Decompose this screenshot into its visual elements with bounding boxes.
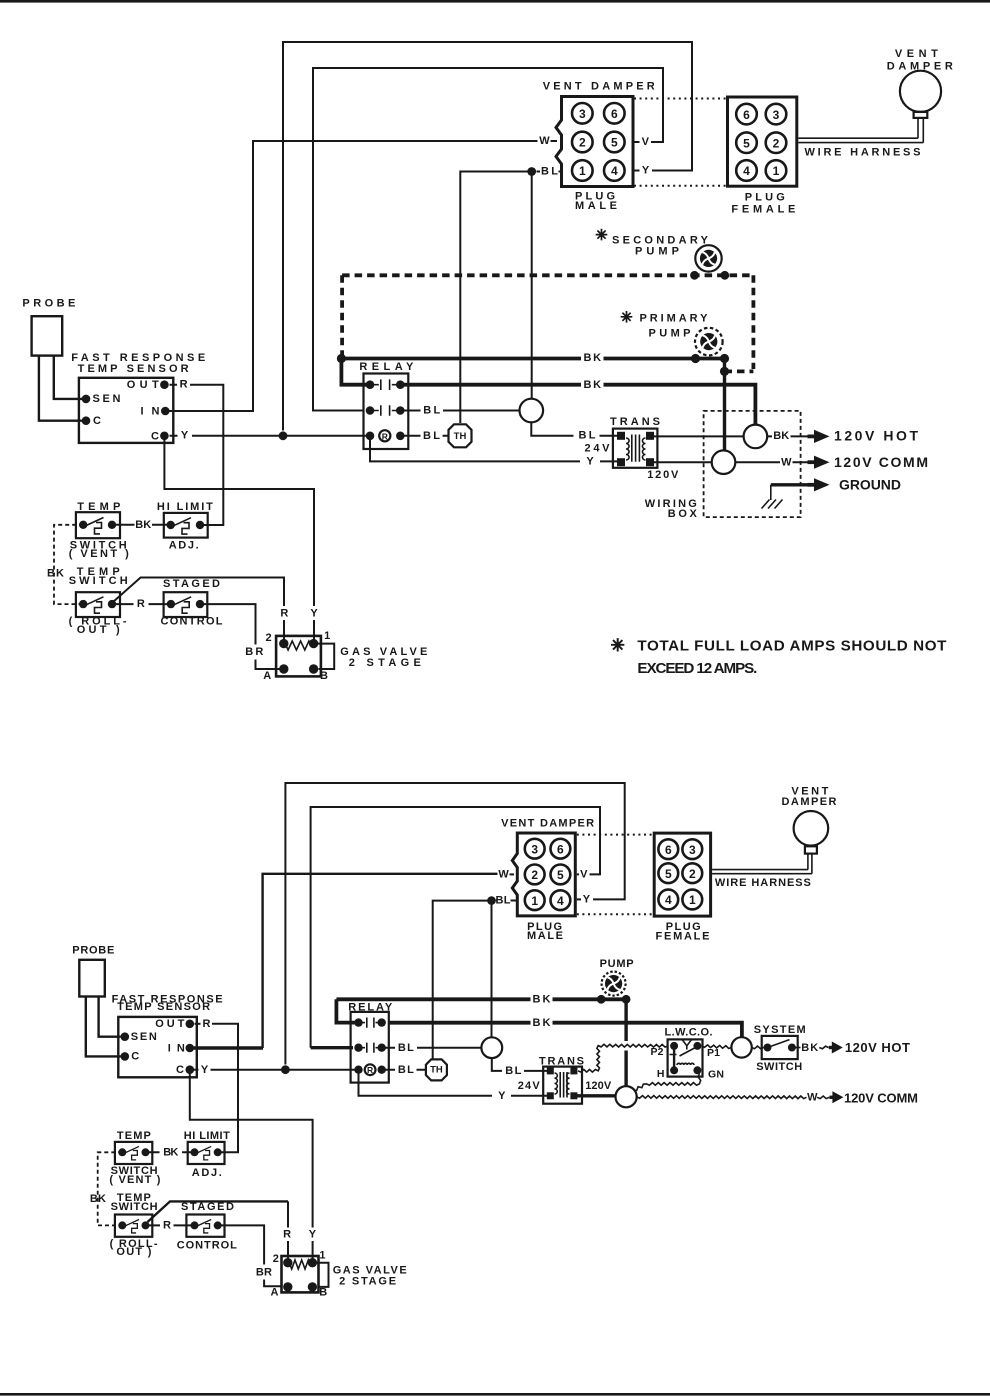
svg-text:R: R [367, 1065, 373, 1075]
svg-text:V: V [642, 136, 650, 148]
wire trans 120V to splice W thick [574, 1094, 616, 1097]
node BL junction at plug male [527, 167, 536, 176]
node primary pump left [691, 354, 700, 363]
wire relay R-right BL to TH [384, 1069, 427, 1071]
L.W.C.O. low water cut-off [651, 1027, 725, 1081]
thermostat TH [449, 424, 472, 447]
svg-text:BL: BL [423, 430, 440, 442]
svg-text:R: R [180, 379, 188, 391]
svg-text:4: 4 [611, 164, 618, 178]
svg-text:A: A [263, 670, 271, 682]
vent damper ball bottom [782, 785, 837, 853]
svg-text:B: B [319, 1286, 327, 1298]
svg-text:PROBE: PROBE [22, 298, 75, 310]
svg-text:2: 2 [579, 136, 586, 150]
svg-text:TH: TH [430, 1065, 443, 1076]
wire BL down branch to splice [491, 901, 493, 1038]
wire W from plug male pin W down to sensor IN [263, 874, 498, 1048]
svg-text:BR: BR [256, 1266, 272, 1278]
svg-text:2 STAGE: 2 STAGE [349, 657, 421, 669]
svg-text:PUMP: PUMP [600, 958, 634, 970]
wire relay H2 right BL to wire-nut [402, 410, 520, 412]
svg-text:WIRE HARNESS: WIRE HARNESS [805, 146, 921, 158]
field wiring LWCO P1 to BK splice [702, 1045, 732, 1049]
dotted links male to female [577, 834, 653, 836]
svg-text:RELAY: RELAY [359, 361, 414, 373]
wire relay H2 right BL to splice [384, 1047, 482, 1049]
svg-text:BL: BL [505, 1065, 521, 1077]
svg-text:SECONDARY: SECONDARY [612, 234, 709, 246]
wire relay R-left down to trans Y [359, 1070, 552, 1096]
svg-text:Y: Y [642, 165, 650, 177]
svg-text:L.W.C.O.: L.W.C.O. [665, 1027, 713, 1039]
relay K1 [359, 361, 414, 449]
wire from wire-nut down to trans 24V BL [531, 422, 622, 436]
svg-text:P1: P1 [707, 1047, 720, 1059]
svg-text:BK: BK [584, 352, 602, 364]
svg-text:R: R [382, 431, 388, 441]
gas valve V1 [245, 607, 427, 682]
svg-text:W: W [807, 1092, 818, 1104]
svg-text:PUMP: PUMP [635, 246, 679, 258]
splice circle BL [481, 1037, 502, 1058]
svg-text:BK: BK [801, 1042, 818, 1054]
node Y junction [279, 431, 288, 440]
node dots on dashed line at secondary pump [690, 271, 699, 280]
wire Y from plug male pin Y up-over-down to Y node [283, 42, 692, 431]
wire relay R-left down to trans 24V Y [370, 436, 622, 462]
wire roll-out diagonal to gas valve pin 2 (R) [113, 578, 284, 642]
svg-text:3: 3 [579, 107, 586, 121]
hi limit switch S2 [157, 501, 213, 551]
svg-text:4: 4 [743, 164, 750, 178]
svg-text:BL: BL [496, 895, 511, 907]
splice W circle [712, 450, 736, 474]
wiring box dashed [704, 411, 801, 517]
svg-text:OUT ): OUT ) [116, 1246, 151, 1258]
svg-text:120V: 120V [585, 1080, 612, 1092]
svg-text:Y: Y [583, 894, 591, 906]
svg-text:PLUG: PLUG [745, 192, 785, 204]
svg-text:3: 3 [689, 843, 696, 857]
wire pump neutral down to wire-nut W [723, 359, 726, 451]
wire W splice to 120V COMM arrow [735, 461, 808, 463]
node BK1 junction with dashed box [337, 354, 346, 363]
svg-text:MALE: MALE [527, 930, 563, 942]
wire harness double line [798, 118, 923, 143]
vent damper ball [887, 48, 953, 118]
wire pump neutral down to splice W (break at field wiring crossing) [624, 999, 627, 1086]
wire W from plug male pin W to sensor IN [166, 141, 538, 411]
hi limit bottom [184, 1130, 230, 1179]
wire BK1 thick from junction to primary pump [341, 357, 726, 361]
svg-text:P2: P2 [651, 1046, 664, 1058]
svg-text:BK: BK [533, 1017, 551, 1029]
svg-text:24V: 24V [518, 1080, 541, 1092]
svg-text:BK: BK [90, 1193, 106, 1205]
svg-text:SEN: SEN [93, 393, 121, 405]
svg-text:BK: BK [533, 994, 551, 1006]
svg-text:BOX: BOX [668, 508, 698, 520]
svg-text:VENT: VENT [895, 48, 938, 60]
splice BK circle [744, 425, 768, 449]
svg-text:120V HOT: 120V HOT [845, 1040, 910, 1055]
field wiring W splice to GN [634, 1074, 701, 1091]
svg-text:W: W [539, 135, 550, 147]
thermostat TH [426, 1059, 447, 1080]
wire relay R-right BL to TH [402, 435, 449, 437]
svg-text:C: C [176, 1064, 184, 1076]
wire thick feed down to relay H1 left [341, 359, 368, 385]
plug female J1 bottom [654, 833, 710, 943]
svg-text:5: 5 [557, 868, 564, 882]
wire BK1 to pump [336, 997, 626, 1001]
svg-text:PRIMARY: PRIMARY [640, 312, 709, 324]
svg-text:2: 2 [773, 136, 780, 150]
ground symbol and arrow [771, 483, 808, 486]
svg-text:SYSTEM: SYSTEM [754, 1024, 806, 1036]
svg-text:PROBE: PROBE [72, 945, 114, 957]
staged control S4 [161, 578, 223, 627]
arrow 120V COMM [829, 1091, 843, 1103]
svg-text:1: 1 [773, 164, 780, 178]
wire Y row sensor C to relay R [211, 1069, 357, 1071]
svg-text:R: R [283, 1229, 291, 1241]
svg-text:120V COMM: 120V COMM [834, 454, 928, 470]
wire BL left branch down to TH [433, 901, 492, 1060]
temp sensor module bottom [112, 993, 223, 1077]
svg-text:A: A [271, 1286, 279, 1298]
wire staged control to gas valve A (BR) [200, 604, 282, 669]
svg-text:SWITCH: SWITCH [111, 1201, 158, 1213]
svg-text:5: 5 [743, 136, 750, 150]
svg-text:5: 5 [665, 867, 672, 881]
splice circle BK [731, 1037, 751, 1057]
svg-text:Y: Y [498, 1090, 506, 1102]
temp sensor module [71, 352, 205, 443]
wire BL down branch to wire-nut circle [531, 172, 533, 399]
svg-text:CONTROL: CONTROL [177, 1240, 237, 1252]
svg-text:GN: GN [708, 1069, 724, 1081]
gas valve bottom [256, 1228, 407, 1298]
transformer T1 [585, 416, 679, 481]
svg-text:BK: BK [163, 1146, 178, 1158]
svg-text:( VENT ): ( VENT ) [109, 1174, 160, 1186]
svg-text:WIRE HARNESS: WIRE HARNESS [715, 877, 811, 889]
svg-text:BL: BL [541, 165, 558, 177]
svg-text:CONTROL: CONTROL [161, 616, 223, 628]
wire BL left branch down to TH [460, 172, 531, 424]
svg-text:R: R [203, 1018, 211, 1030]
svg-text:TRANS: TRANS [610, 416, 660, 428]
wire BK2 from relay H1 right to splice [389, 1023, 742, 1038]
svg-text:6: 6 [557, 842, 564, 856]
wire R from sensor OUT down to HI LIMIT right [170, 385, 224, 525]
wire roll-out to staged (R) [146, 1224, 197, 1226]
page bottom rule [0, 1393, 990, 1396]
wire R from sensor OUT down to HI LIMIT right [212, 1024, 238, 1153]
svg-text:BL: BL [398, 1064, 414, 1076]
svg-text:C: C [151, 430, 159, 442]
svg-text:2: 2 [265, 632, 271, 644]
wire BK2 from relay H1 right to wiring box [400, 385, 755, 425]
wire roll-out to staged control (R) [112, 603, 172, 605]
plug male P1 bottom [501, 818, 594, 942]
svg-text:2 STAGE: 2 STAGE [339, 1276, 396, 1288]
wire Y row from sensor C to relay R [170, 435, 369, 437]
dotted link plug male to female top [634, 98, 726, 100]
svg-text:FEMALE: FEMALE [731, 204, 795, 216]
svg-text:BK: BK [773, 430, 789, 442]
node pump left [597, 995, 606, 1004]
field wiring trans to LWCO P2 [578, 1044, 668, 1072]
page top rule [0, 0, 990, 3]
svg-text:C: C [131, 1051, 139, 1063]
wire V from plug male pin V up-over-down to relay H2 [313, 68, 663, 411]
svg-text:Y: Y [181, 430, 189, 442]
wire temp switch vent to hi limit (BK) [112, 524, 172, 526]
svg-text:Y: Y [201, 1064, 209, 1076]
wire roll-out diagonal to gas valve pin 2 (R) [148, 1201, 289, 1222]
note: total full load amps [611, 637, 947, 677]
dotted link plug male to female bottom [634, 185, 726, 187]
svg-text:EXCEED 12 AMPS.: EXCEED 12 AMPS. [637, 660, 757, 677]
temp switch (roll-out) bottom [110, 1192, 158, 1258]
probe [22, 298, 82, 421]
temp switch (roll-out) S3 [69, 566, 128, 636]
svg-text:6: 6 [743, 108, 750, 122]
svg-text:1: 1 [324, 630, 330, 642]
field wiring BK to arrow [819, 1046, 828, 1049]
temp switch (vent) S1 [69, 501, 129, 560]
field wiring W splice to 120V COMM [637, 1096, 807, 1099]
node primary pump right [720, 354, 729, 363]
svg-text:BK: BK [584, 379, 602, 391]
svg-text:R: R [280, 607, 288, 619]
wire dashed loop vent switch to roll-out [98, 1152, 123, 1225]
svg-text:TRANS: TRANS [539, 1055, 584, 1067]
svg-text:4: 4 [665, 893, 672, 907]
wire trans 120V to BK splice [654, 435, 744, 437]
svg-text:STAGED: STAGED [163, 578, 220, 590]
svg-text:OUT: OUT [155, 1018, 184, 1030]
svg-text:BK: BK [135, 519, 151, 531]
primary pump M1 [621, 311, 723, 355]
wire Y from plug male pin Y to Y node [285, 783, 624, 1065]
wire dashed stub to dashed box right edge [725, 369, 754, 373]
svg-text:VENT DAMPER: VENT DAMPER [501, 818, 594, 830]
node Y junction [281, 1065, 290, 1074]
svg-text:2: 2 [273, 1253, 279, 1265]
svg-text:TEMP: TEMP [117, 1130, 151, 1142]
node pump right [622, 995, 631, 1004]
svg-text:HI LIMIT: HI LIMIT [184, 1130, 230, 1142]
wire vent switch to hi limit (BK) [146, 1151, 197, 1153]
svg-text:SWITCH: SWITCH [756, 1061, 802, 1073]
svg-text:VENT DAMPER: VENT DAMPER [543, 81, 655, 93]
svg-text:3: 3 [531, 842, 538, 856]
svg-text:TOTAL FULL LOAD AMPS SHOULD NO: TOTAL FULL LOAD AMPS SHOULD NOT [637, 637, 947, 654]
arrow 120V HOT [829, 1042, 843, 1054]
svg-text:120V HOT: 120V HOT [834, 428, 918, 444]
wire BK splice to 120V HOT arrow [767, 435, 808, 437]
svg-text:IN: IN [168, 1042, 185, 1054]
svg-text:B: B [320, 670, 328, 682]
svg-text:C: C [93, 415, 101, 427]
plug female J1 [728, 97, 797, 216]
plug male P1 [543, 81, 655, 212]
svg-text:6: 6 [665, 843, 672, 857]
field wiring BK splice to system switch [752, 1046, 764, 1049]
svg-text:IN: IN [141, 405, 160, 417]
svg-text:TH: TH [454, 431, 467, 442]
relay K1 [348, 1001, 393, 1082]
svg-text:W: W [498, 869, 509, 881]
system switch S5 [754, 1024, 806, 1073]
svg-text:TEMP SENSOR: TEMP SENSOR [117, 1001, 210, 1013]
svg-text:ADJ.: ADJ. [192, 1167, 222, 1179]
probe bottom [72, 945, 120, 1057]
svg-text:2: 2 [689, 867, 696, 881]
svg-text:ADJ.: ADJ. [169, 539, 199, 551]
svg-text:BL: BL [398, 1042, 414, 1054]
wire dashed loop temp switch vent to roll-out [54, 525, 83, 604]
wire thick feed to relay H1 [336, 999, 356, 1022]
temp switch (vent) bottom [109, 1130, 160, 1186]
wire trans 120V to W splice [654, 461, 712, 463]
svg-text:1: 1 [689, 893, 696, 907]
svg-text:HI LIMIT: HI LIMIT [157, 501, 213, 513]
svg-text:Y: Y [310, 607, 318, 619]
splice circle W [616, 1086, 637, 1107]
svg-text:2: 2 [531, 868, 538, 882]
wire staged control to gas valve A (BR) [218, 1225, 281, 1286]
svg-text:BL: BL [579, 430, 596, 442]
svg-text:STAGED: STAGED [181, 1201, 234, 1213]
svg-text:W: W [781, 456, 792, 468]
wire IN stub thick [190, 1046, 263, 1049]
node at dashed stub [720, 367, 729, 376]
wire harness double line bottom [712, 854, 812, 874]
svg-text:Y: Y [586, 456, 594, 468]
svg-text:V: V [580, 869, 588, 881]
svg-text:Y: Y [309, 1228, 317, 1240]
svg-text:H: H [657, 1068, 665, 1080]
svg-text:BR: BR [245, 646, 263, 658]
svg-text:OUT: OUT [127, 379, 159, 391]
svg-text:1: 1 [531, 894, 538, 908]
wire-nut circle BL [520, 399, 544, 423]
svg-text:SEN: SEN [131, 1031, 157, 1043]
svg-text:BK: BK [47, 568, 64, 580]
dashed pump circuit box [342, 275, 753, 369]
svg-text:24V: 24V [585, 443, 611, 455]
node BL junction at plug male [487, 896, 496, 905]
svg-text:3: 3 [773, 108, 780, 122]
transformer T1 [518, 1055, 612, 1103]
wire V from plug male pin V to relay H2 [311, 807, 600, 1048]
svg-text:TEMP SENSOR: TEMP SENSOR [78, 363, 189, 375]
svg-text:R: R [163, 1220, 171, 1232]
wire splice down to trans 120V BL [492, 1058, 551, 1071]
svg-text:120V: 120V [647, 469, 679, 481]
svg-text:BL: BL [423, 405, 440, 417]
svg-text:4: 4 [557, 894, 564, 908]
svg-text:1: 1 [319, 1250, 325, 1262]
wire sensor C down to gas valve pin 1 [190, 1070, 313, 1260]
svg-text:1: 1 [579, 164, 586, 178]
svg-text:R: R [137, 598, 145, 610]
svg-text:120V COMM: 120V COMM [844, 1091, 918, 1106]
svg-text:SWITCH: SWITCH [70, 539, 127, 551]
svg-text:PUMP: PUMP [649, 327, 691, 339]
svg-text:5: 5 [611, 136, 618, 150]
svg-text:DAMPER: DAMPER [782, 796, 837, 808]
svg-text:GROUND: GROUND [839, 476, 901, 492]
wire sensor C down to gas valve pin 1 [164, 436, 314, 641]
svg-text:6: 6 [611, 107, 618, 121]
pump M1 [600, 958, 634, 996]
secondary pump M2 [596, 229, 722, 272]
staged control bottom [177, 1201, 237, 1251]
